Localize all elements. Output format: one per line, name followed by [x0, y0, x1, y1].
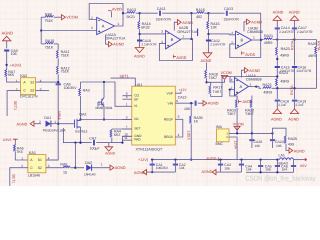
svg-text:CSDN @on_the_backway: CSDN @on_the_backway [245, 174, 316, 182]
resistor RA16 [207, 21, 209, 29]
transistor QA1 [102, 98, 104, 107]
resistor RA8 [45, 16, 54, 18]
value CA7 100uF [90, 147, 100, 151]
label CA21 [275, 140, 284, 144]
wire RA11-RA12 [57, 58, 59, 65]
svg-text:+A3V3: +A3V3 [10, 63, 22, 67]
label CA8 [64, 82, 71, 86]
value RA15 402 [196, 15, 202, 19]
ground symbol CA19 [290, 109, 298, 114]
wire output to RA21 [261, 39, 263, 41]
resistor RA26 [315, 46, 317, 54]
junction CA5 top [276, 158, 278, 160]
svg-text:A5V: A5V [300, 164, 307, 168]
ground AGND label UA3B [251, 20, 262, 24]
part 1N4148 DA2 [84, 172, 96, 176]
resistor RA19 [235, 99, 237, 107]
svg-text:104: 104 [246, 167, 252, 171]
svg-text:751K: 751K [61, 54, 70, 58]
label RA5 [60, 162, 67, 166]
part CPC1017N [20, 95, 38, 99]
wire RA21 to wireA [273, 39, 278, 41]
ground AGND label UA3A [249, 69, 260, 73]
pin 2 UA3B [231, 41, 233, 45]
ground flag DA2 [110, 165, 114, 170]
pin 1 DA1 [54, 120, 56, 124]
label RA4 [114, 130, 121, 134]
wire CA1 stem [151, 160, 153, 164]
wire A down3 [276, 77, 278, 79]
svg-text:3: 3 [161, 30, 163, 34]
wire CA11 to node3 [162, 12, 191, 14]
svg-text:RXTA-: RXTA- [290, 84, 294, 95]
label CA11 [157, 7, 166, 11]
value RA4 6K2 [114, 133, 120, 137]
svg-text:AGND: AGND [2, 31, 14, 36]
pin 2 DA1 [39, 120, 41, 124]
svg-text:RXTA+: RXTA+ [291, 38, 295, 50]
value CA16 22nF/X7R [297, 69, 312, 73]
junction KA2 pin4 node [57, 81, 59, 83]
svg-text:PESD24VL1BA: PESD24VL1BA [43, 128, 67, 132]
svg-text:49R9: 49R9 [264, 41, 273, 45]
wire RA13 to node2 [136, 12, 140, 14]
wire RA20 top [251, 96, 253, 100]
wire AVDD to UA2A V+ [111, 11, 113, 17]
pin 3 UA2A [91, 26, 93, 30]
ground flag UA2B top [177, 20, 181, 25]
svg-text:1: 1 [126, 102, 128, 106]
junction RA13/RA14 [138, 12, 140, 14]
ground AGND label CA14 [273, 11, 284, 15]
wire feedback long y76 [222, 76, 277, 78]
wire AGND to CA9 [6, 41, 8, 49]
junction RA22/A [276, 87, 278, 89]
wire KA1 pin4 [46, 159, 58, 161]
optocoupler KA1 [28, 155, 46, 173]
value RA8 751K [45, 19, 54, 23]
svg-text:SET1: SET1 [12, 174, 16, 183]
pin 3 KA1 [48, 164, 50, 168]
resistor RA14 [138, 21, 140, 29]
wire RA6 to KA1 pin1 [15, 151, 28, 160]
label RA16 [211, 22, 220, 26]
capacitor CA10 [137, 40, 142, 41]
svg-text:T4K7: T4K7 [208, 76, 217, 80]
svg-text:RA3: RA3 [83, 89, 90, 93]
wire CA17 to line [294, 29, 296, 39]
svg-text:11: 11 [124, 136, 128, 140]
value RA5 15 [63, 170, 67, 174]
svg-text:PAD: PAD [134, 138, 141, 142]
junction CA22 top [240, 158, 242, 160]
pin name VSP UA1 right [166, 91, 173, 95]
svg-text:RA8: RA8 [45, 12, 52, 16]
value CA4 104 [246, 167, 252, 171]
wire A down4 [276, 86, 278, 88]
label UA3B [248, 26, 258, 30]
value RA22 49R9 [263, 91, 272, 95]
wire RA14 top [139, 13, 141, 21]
value RA11 751K [61, 54, 70, 58]
power arrow A5V [294, 158, 307, 161]
wire +12V rail [151, 159, 231, 161]
junction QA1 collector [103, 81, 105, 83]
svg-text:2: 2 [91, 16, 93, 20]
power label A5V [300, 164, 307, 168]
wire RA4 vert [111, 128, 113, 131]
svg-text:AGND: AGND [134, 55, 145, 59]
value CA2 104 [179, 166, 185, 170]
power label AVDD UA3A [243, 100, 253, 104]
junction A3V3 [5, 64, 7, 66]
label RA25 [288, 137, 297, 141]
pin stub UA1 left y136.3 [122, 135, 131, 137]
wire CA18 bottom [276, 102, 278, 109]
pin name REGS UA1 right [164, 135, 174, 139]
ground flag CA3 left [212, 170, 216, 175]
value RA13 5K21 [127, 15, 135, 19]
wire UA2A output [115, 13, 124, 26]
wire RA12 to CA8 [57, 74, 59, 82]
capacitor CA20 [249, 140, 254, 141]
pin S1 KA2 [30, 80, 34, 84]
label CA23 [178, 96, 187, 100]
junction RA24/CA15 node [276, 75, 278, 77]
ground AGND label DA2 [115, 166, 126, 170]
svg-text:2.2uF/X7R: 2.2uF/X7R [297, 30, 313, 34]
label CA17 [298, 26, 307, 30]
capacitor CA18 [275, 100, 280, 101]
svg-text:AVDD: AVDD [112, 7, 122, 11]
wire CA20 bottom [251, 141, 253, 148]
junction CA2 top [174, 158, 176, 160]
part OPA2277UA UA2A [106, 36, 126, 40]
value RA7 9K5 [8, 73, 14, 77]
value CA15 22nF/X7R [280, 69, 295, 73]
ground AGND label CA23 [208, 102, 219, 106]
pin 1 BNC [226, 131, 228, 135]
junction QA2 drain [79, 118, 81, 120]
value RA23 49R9 [280, 54, 289, 58]
wire RA16 top [208, 13, 210, 21]
resistor RA15 [196, 12, 204, 14]
junction UA2B output [190, 38, 192, 40]
ground flag DA1 left [30, 121, 34, 126]
svg-text:AVDD: AVDD [176, 56, 186, 60]
pin 3 UA3B [231, 31, 233, 35]
pin name VIN UA1 right [168, 101, 174, 105]
op-amp UA2B [166, 31, 181, 49]
junction CA3 top [219, 158, 221, 160]
svg-text:2.2uF: 2.2uF [278, 103, 286, 107]
svg-text:1: 1 [183, 35, 185, 39]
svg-text:6: 6 [176, 99, 178, 103]
wire B down2 [294, 68, 296, 88]
label CA5 [265, 164, 272, 168]
wire UA2B V+ to flag [174, 22, 177, 30]
ground symbol RA16 [203, 53, 212, 58]
wire CA2 stem [174, 160, 176, 164]
pin 1 KA2 [16, 79, 18, 83]
pin 1 UA2A [118, 22, 120, 26]
svg-text:KA1: KA1 [29, 151, 36, 155]
wire - node to RA19 [230, 90, 237, 100]
pin 4 KA1 [48, 156, 50, 160]
svg-text:15: 15 [63, 170, 67, 174]
wire RA4 bottom [111, 137, 113, 142]
svg-text:T4K7: T4K7 [227, 112, 236, 116]
svg-text:SET1: SET1 [13, 101, 17, 110]
net label VCOM [66, 16, 78, 20]
value CA5 106 [265, 167, 271, 171]
wire feedback UA2B [191, 13, 193, 39]
pin 1 KA1 [21, 156, 23, 160]
wire node4 to CA13 [209, 12, 225, 14]
label CA12 [211, 39, 220, 43]
wire C down [316, 40, 318, 46]
wire RA3 top [80, 82, 82, 88]
junction CA7 line 2 [79, 141, 81, 143]
label RA26 [308, 42, 317, 46]
svg-text:AGND: AGND [294, 149, 305, 153]
wire flag to RA6 [14, 142, 16, 145]
pin name REGF UA1 right [164, 118, 173, 122]
capacitor CA19 [292, 100, 297, 101]
svg-text:AGND: AGND [105, 152, 116, 156]
junction RA14/CA10 node [138, 33, 140, 35]
svg-text:5K21: 5K21 [127, 15, 135, 19]
label RA3 [83, 89, 90, 93]
wire to CA17 node [277, 39, 294, 41]
wire drain rail to chip [81, 119, 132, 121]
resistor RA11 [57, 50, 59, 58]
svg-text:VCOM: VCOM [66, 16, 78, 20]
power label AVDD UA2B [176, 56, 186, 60]
label RA24 [279, 71, 288, 75]
label RA13 [127, 8, 136, 12]
wire KA1 pin3 to RA5 [46, 167, 63, 169]
svg-text:AGND: AGND [249, 69, 260, 73]
capacitor CA4 [258, 166, 263, 167]
resistor RA3 [79, 88, 81, 96]
value CA19 2.2uF [295, 103, 303, 107]
ground AGND label CA18 [271, 118, 282, 122]
ground flag CA23 [203, 101, 207, 106]
label UA3A [246, 74, 256, 78]
svg-text:OPA2277UA: OPA2277UA [106, 36, 126, 40]
pin C KA1 [30, 166, 33, 170]
label CA9 [11, 49, 18, 53]
wire CA14 to line [276, 29, 278, 39]
wire QA1 base down [97, 102, 99, 106]
watermark CSDN [245, 174, 316, 182]
value CA23 106 [184, 107, 190, 111]
resistor RA6 [14, 144, 16, 151]
net label SET1 bottom left [12, 174, 16, 183]
svg-text:I/G: I/G [134, 117, 139, 121]
resistor RA21 [264, 38, 273, 40]
wire VCOM flag stem [236, 130, 238, 133]
svg-text:VCOM: VCOM [233, 122, 244, 126]
ground flag UA3A [245, 68, 249, 73]
label QA1 [98, 102, 105, 106]
wire RA18 top [206, 63, 208, 70]
ground symbol CA14 [273, 16, 281, 21]
power label AVDD UA2A [112, 7, 122, 11]
label CA6 [281, 164, 288, 168]
wire RA5 to DA2 node [70, 167, 75, 169]
resistor RA24 [276, 78, 278, 86]
svg-text:751K: 751K [61, 70, 70, 74]
value RA25 499 [288, 143, 294, 147]
part XTR111AIDGQT [136, 148, 163, 152]
capacitor CA9 [4, 50, 9, 51]
pin stub UA1 VSP [175, 92, 181, 94]
svg-text:106: 106 [11, 52, 17, 56]
resistor RA5 [63, 166, 71, 168]
label CA19 [297, 99, 306, 103]
capacitor CA3 [218, 164, 223, 165]
inductor LA1 BEAD [279, 158, 293, 160]
wire CA20 top2 [251, 133, 253, 139]
wire CA22 stem [241, 160, 243, 164]
ground AGND label UA2A [113, 43, 124, 47]
wire gnd to CA14 [276, 20, 278, 27]
svg-text:1: 1 [21, 156, 23, 160]
svg-text:106: 106 [224, 167, 230, 171]
ground AGND label (top-left) [2, 31, 14, 36]
wire CA4 stem [260, 160, 262, 166]
junction VIN node [190, 102, 192, 104]
power label AVDD rail [206, 157, 216, 161]
svg-text:49R9: 49R9 [263, 91, 272, 95]
svg-text:106/35V: 106/35V [64, 86, 78, 90]
net label RXTA+ vertical [291, 38, 295, 50]
wire UA2B - feedback [159, 39, 192, 61]
label CA14 [281, 26, 290, 30]
label RA15 [196, 8, 205, 12]
wire RA8 left stub [41, 16, 45, 18]
value CA10 2.2nF [141, 43, 157, 47]
wire AGND flag to DA1 [34, 123, 41, 125]
wire RA17 to + net [211, 77, 222, 97]
wire node to UA2B + input [140, 33, 166, 35]
svg-text:AGND: AGND [134, 171, 145, 175]
svg-text:DA1: DA1 [44, 116, 51, 120]
pin number 1 UA1 [126, 102, 128, 106]
svg-text:RA21: RA21 [264, 34, 273, 38]
svg-text:3: 3 [126, 116, 128, 120]
svg-text:7K5: 7K5 [16, 150, 22, 154]
wire CA8 down VINA [46, 85, 58, 160]
power flag VCOM BNC [234, 126, 240, 130]
ground flag CA1 left [143, 170, 147, 175]
label CA1 [156, 163, 163, 167]
wire output jog [256, 87, 261, 89]
svg-text:100μF: 100μF [90, 147, 100, 151]
svg-text:A: A [240, 84, 243, 89]
wire CA7 line right [96, 136, 132, 142]
pin stub UA1 left y99.2 [122, 98, 131, 100]
ground symbol under chip [105, 147, 113, 151]
value CA20 106 [254, 144, 260, 148]
svg-text:106: 106 [254, 144, 260, 148]
net label SET1 mid [120, 74, 129, 78]
wire RA19 top [236, 96, 238, 100]
svg-text:12VA: 12VA [234, 141, 238, 150]
svg-text:RA23: RA23 [281, 47, 290, 51]
pin 2 UA2B [161, 40, 163, 44]
wire BNC line up over [273, 128, 287, 135]
wire KA1 pin2 [10, 168, 28, 186]
svg-text:22nF/X7R: 22nF/X7R [156, 18, 172, 22]
wire RA3 to QA2 drain [80, 96, 82, 120]
wire UA3B V+ to flag [244, 22, 247, 31]
svg-text:VIN: VIN [168, 101, 174, 105]
svg-text:B: B [171, 37, 174, 42]
power label +A3V3 [10, 63, 22, 67]
label LA1 [279, 153, 285, 157]
ground AGND label CA19 [288, 118, 299, 122]
junction VCOM tap [205, 81, 207, 83]
label RA8 [45, 12, 52, 16]
wire CA6 stem [293, 160, 295, 166]
svg-text:INA: INA [216, 125, 223, 129]
svg-text:S1: S1 [38, 158, 42, 162]
value CA13 22nF/X7R [224, 18, 240, 22]
wire UA3A output [249, 86, 257, 88]
svg-text:S1: S1 [30, 80, 34, 84]
svg-text:AGND: AGND [17, 122, 28, 126]
svg-text:RA25: RA25 [288, 137, 297, 141]
pin A KA1 [30, 158, 33, 162]
svg-text:AGND: AGND [201, 59, 212, 63]
wire node to UA3B + input [209, 33, 222, 35]
svg-text:106/35V: 106/35V [156, 166, 169, 170]
wire CA19 top [294, 88, 296, 99]
label CA16 [298, 65, 307, 69]
svg-text:AGND: AGND [251, 20, 262, 24]
svg-text:BSP613: BSP613 [75, 129, 87, 133]
pin 2 KA1 [21, 164, 23, 168]
svg-text:104: 104 [282, 167, 288, 171]
wire chain RA11 top [57, 44, 59, 50]
pin number 6 UA1 [176, 99, 178, 103]
capacitor CA21 [270, 140, 275, 141]
wire UA2A V- down [106, 35, 109, 45]
wire vertical RA8-RA10 [40, 17, 42, 44]
svg-text:XTR111AIDGQT: XTR111AIDGQT [136, 148, 163, 152]
wire gnd rail CA4-CA6 [246, 171, 294, 173]
wire RA22 right to C [272, 87, 317, 89]
junction QA2 source node [79, 141, 81, 143]
label RA35 [194, 116, 203, 120]
svg-text:AGND: AGND [288, 118, 299, 122]
op-amp UA3B [236, 31, 252, 49]
value RA12 751K [61, 70, 70, 74]
pin number 8 UA1 [126, 95, 128, 99]
label RA21 [264, 34, 273, 38]
wire RA7 to KA2 pin1 [7, 77, 21, 83]
wire UA3B output [252, 39, 262, 41]
svg-text:UA1: UA1 [135, 83, 142, 87]
wire B down [294, 40, 296, 66]
label RA10 [45, 39, 54, 43]
junction CA4 top [259, 158, 261, 160]
label RA22 [263, 83, 272, 87]
value CA21 106 [276, 144, 282, 148]
